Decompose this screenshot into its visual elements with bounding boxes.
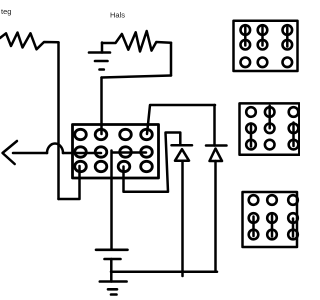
J3 pin 8 — [265, 140, 275, 150]
ground GND1 — [100, 282, 127, 295]
resistor R2 — [102, 31, 171, 52]
J2 pin 6 — [283, 40, 293, 50]
wire D2 cathode up — [213, 105, 216, 146]
connector J4 — [243, 192, 298, 247]
wire row2 jumper pin6-pin8 — [113, 151, 147, 154]
diode D2 — [206, 146, 227, 162]
J4 pin 1 — [249, 195, 259, 205]
svg-text:Hals: Hals — [110, 11, 125, 20]
J1 pin 10 — [95, 161, 107, 171]
wire R2 bottom return — [102, 76, 172, 78]
J4 pin 6 — [288, 213, 298, 223]
J2 pin 5 — [258, 40, 268, 50]
ground GND2 — [89, 43, 110, 70]
J2 pin 2 — [258, 25, 268, 35]
connector J2 — [234, 21, 298, 71]
wire J1 pin 11 to D1 cathode — [124, 133, 181, 192]
wire R2 right down — [170, 43, 173, 76]
J4 pin 5 — [267, 213, 277, 223]
J1 pin 9 — [75, 161, 87, 171]
J2 pin wire col2 — [261, 27, 264, 46]
wire hop to J1 pin 5 — [63, 152, 101, 155]
J4 pin 2 — [267, 195, 277, 205]
J3 pin 9 — [289, 140, 299, 150]
J4 pin wire col2 — [271, 216, 274, 237]
wire to J1 pin 2 — [100, 78, 103, 135]
J2 pin 8 — [258, 58, 268, 68]
resistor R1 — [0, 33, 59, 50]
J3 pin wire col2 — [268, 106, 271, 129]
J4 pin 9 — [288, 230, 298, 240]
J3 pin wire col1 — [250, 124, 253, 147]
J4 pin 4 — [249, 213, 259, 223]
J3 pin 1 — [246, 107, 256, 117]
wire D1 anode down — [181, 161, 184, 276]
J3 pin 5 — [265, 124, 275, 134]
diode D1 — [172, 145, 193, 160]
J3 pin 6 — [289, 124, 299, 134]
arrow out — [13, 152, 47, 155]
J4 pin wire col3 — [292, 219, 295, 237]
J4 pin 3 — [288, 195, 298, 205]
wire R1 down — [57, 43, 60, 200]
connector J3 — [240, 103, 300, 154]
J2 pin wire col1 — [244, 27, 247, 46]
J1 pin 3 — [120, 129, 132, 139]
J4 pin 8 — [267, 230, 277, 240]
J2 pin wire col3 — [286, 28, 289, 47]
J1 pin 12 — [141, 161, 153, 171]
J1 pin 4 — [141, 129, 153, 139]
wire bottom-left L to J1 pin 9 — [59, 166, 80, 199]
J1 pin 8 — [141, 147, 153, 157]
J1 pin 1 — [75, 129, 87, 139]
J3 pin 7 — [246, 140, 256, 150]
J2 pin 4 — [241, 40, 251, 50]
wire battery to ground — [110, 259, 113, 282]
J2 pin 9 — [283, 58, 293, 68]
J3 pin 4 — [246, 124, 256, 134]
J3 pin 2 — [265, 107, 275, 117]
wire to J1 pin 4 — [147, 105, 215, 134]
J1 pin 2 — [95, 129, 107, 139]
arrowhead — [3, 141, 18, 164]
J1 pin 7 — [120, 147, 132, 157]
J2 pin 3 — [283, 25, 293, 35]
J4 pin wire col1 — [252, 217, 255, 237]
J2 pin 1 — [241, 25, 251, 35]
J4 pin 7 — [249, 230, 259, 240]
J3 pin wire col3 — [292, 123, 295, 147]
J1 pin 11 — [118, 161, 130, 171]
connector J1 — [73, 125, 159, 179]
wire anode bus — [111, 271, 217, 274]
battery B1 — [96, 250, 128, 259]
svg-text:teg: teg — [1, 7, 11, 16]
wire battery top — [110, 151, 113, 250]
J1 pin 6 — [95, 147, 107, 157]
J2 pin 7 — [241, 58, 251, 68]
J3 pin 3 — [289, 107, 299, 117]
wire D2 anode down — [214, 161, 217, 272]
J1 pin 5 — [75, 147, 87, 157]
wire hop — [47, 144, 63, 154]
